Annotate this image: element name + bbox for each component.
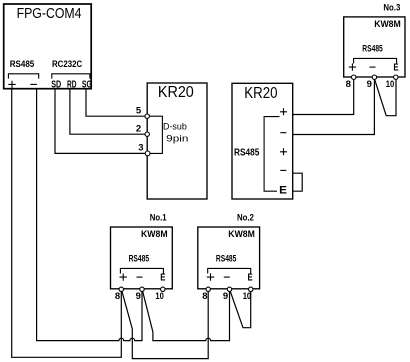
svg-text:SD: SD — [51, 80, 61, 91]
svg-text:KR20: KR20 — [158, 84, 194, 101]
bracket RS485 terminals No.2 — [208, 268, 251, 273]
svg-text:RS485: RS485 — [216, 254, 237, 264]
pin 5 terminal — [145, 114, 149, 118]
wire SG to pin5 — [86, 89, 147, 117]
bracket RC232C port — [52, 74, 90, 79]
wire - bus from FPG-COM4 to No.1 terminal 9 (hops over crossing wires) — [37, 89, 142, 341]
svg-text:E: E — [393, 63, 398, 74]
svg-text:KW8M: KW8M — [374, 19, 401, 29]
converter KR20 (D-sub side) — [147, 83, 207, 199]
svg-text:FPG-COM4: FPG-COM4 — [17, 5, 82, 22]
svg-text:E: E — [248, 273, 253, 284]
terminal 10 No.2 — [249, 287, 253, 291]
terminal - spare — [280, 169, 286, 171]
svg-text:10: 10 — [155, 291, 164, 302]
controller FPG-COM4 — [4, 4, 92, 89]
wire KR20 + to No.3 terminal 8 — [293, 79, 354, 115]
svg-text:8: 8 — [115, 291, 120, 302]
svg-text:RC232C: RC232C — [52, 59, 82, 70]
svg-text:2: 2 — [136, 123, 141, 134]
terminal 10 No.3 — [394, 75, 398, 79]
bracket RS485 terminals No.3 — [354, 58, 397, 63]
svg-text:E: E — [160, 273, 165, 284]
converter KR20 (RS485 side) — [232, 83, 293, 199]
svg-text:RS485: RS485 — [10, 59, 35, 70]
terminal - (to No.3) — [280, 132, 286, 134]
terminal + (to No.3) — [280, 108, 287, 115]
svg-text:9: 9 — [136, 291, 141, 302]
svg-text:RS485: RS485 — [129, 254, 150, 264]
svg-text:9: 9 — [367, 79, 372, 90]
svg-text:RD: RD — [67, 80, 77, 91]
wire + bus from FPG-COM4 to No.1 terminal 8 — [12, 89, 122, 358]
terminal 10 No.1 — [161, 287, 165, 291]
svg-text:10: 10 — [386, 79, 395, 90]
terminal + of FPG-COM4 — [8, 81, 15, 88]
terminator jumper 9-10 No.2 — [230, 289, 251, 327]
power meter KW8M No.2 — [198, 227, 260, 289]
bracket RS485 port — [8, 74, 38, 79]
terminal + No.2 — [207, 273, 214, 280]
svg-text:RS485: RS485 — [234, 148, 260, 159]
pin 3 terminal — [145, 151, 150, 156]
svg-text:E: E — [279, 185, 287, 197]
svg-text:3: 3 — [138, 142, 143, 153]
wire SD to pin3 — [55, 89, 148, 154]
terminal 9 No.2 — [227, 287, 231, 291]
terminal 8 No.3 — [352, 75, 356, 79]
terminal + No.3 — [349, 63, 356, 70]
terminal - No.1 — [137, 276, 143, 278]
svg-text:RS485: RS485 — [362, 44, 383, 54]
terminal 8 No.1 — [119, 287, 123, 291]
svg-text:No.3: No.3 — [383, 2, 400, 12]
svg-text:9: 9 — [223, 291, 228, 302]
svg-text:D-sub: D-sub — [163, 121, 187, 131]
svg-text:8: 8 — [202, 291, 207, 302]
terminal + No.1 — [120, 273, 127, 280]
wire RD to pin2 — [70, 89, 147, 135]
svg-text:SG: SG — [82, 80, 92, 91]
jumper - to E — [293, 173, 303, 191]
svg-text:KR20: KR20 — [244, 85, 277, 102]
svg-text:10: 10 — [243, 291, 252, 302]
svg-text:KW8M: KW8M — [141, 229, 168, 239]
terminator jumper 9-10 No.3 — [375, 79, 396, 116]
terminal + spare — [280, 148, 287, 155]
terminal - No.2 — [224, 276, 230, 278]
wire + link No.1 terminal 8 to No.2 terminal 8 — [122, 289, 209, 358]
terminal 9 No.1 — [140, 287, 144, 291]
svg-text:No.1: No.1 — [150, 212, 167, 222]
bracket RS485 terminals — [264, 117, 279, 192]
power meter KW8M No.3 — [344, 17, 405, 77]
svg-text:KW8M: KW8M — [228, 229, 255, 239]
terminal - of FPG-COM4 — [30, 83, 37, 85]
terminal - No.3 — [370, 66, 376, 68]
bracket D-sub pins — [149, 116, 162, 153]
power meter KW8M No.1 — [111, 227, 173, 289]
terminal 9 No.3 — [372, 75, 376, 79]
svg-text:8: 8 — [346, 79, 351, 90]
terminal 8 No.2 — [206, 287, 210, 291]
svg-text:No.2: No.2 — [237, 212, 254, 222]
svg-text:5: 5 — [136, 105, 142, 116]
wire - link No.1 terminal 9 to No.2 terminal 9 (hop over crossing wire) — [142, 289, 229, 340]
svg-text:9pin: 9pin — [166, 133, 188, 143]
bracket RS485 terminals No.1 — [120, 268, 163, 273]
wire KR20 - to No.3 terminal 9 — [293, 79, 375, 135]
pin 2 terminal — [145, 132, 149, 136]
